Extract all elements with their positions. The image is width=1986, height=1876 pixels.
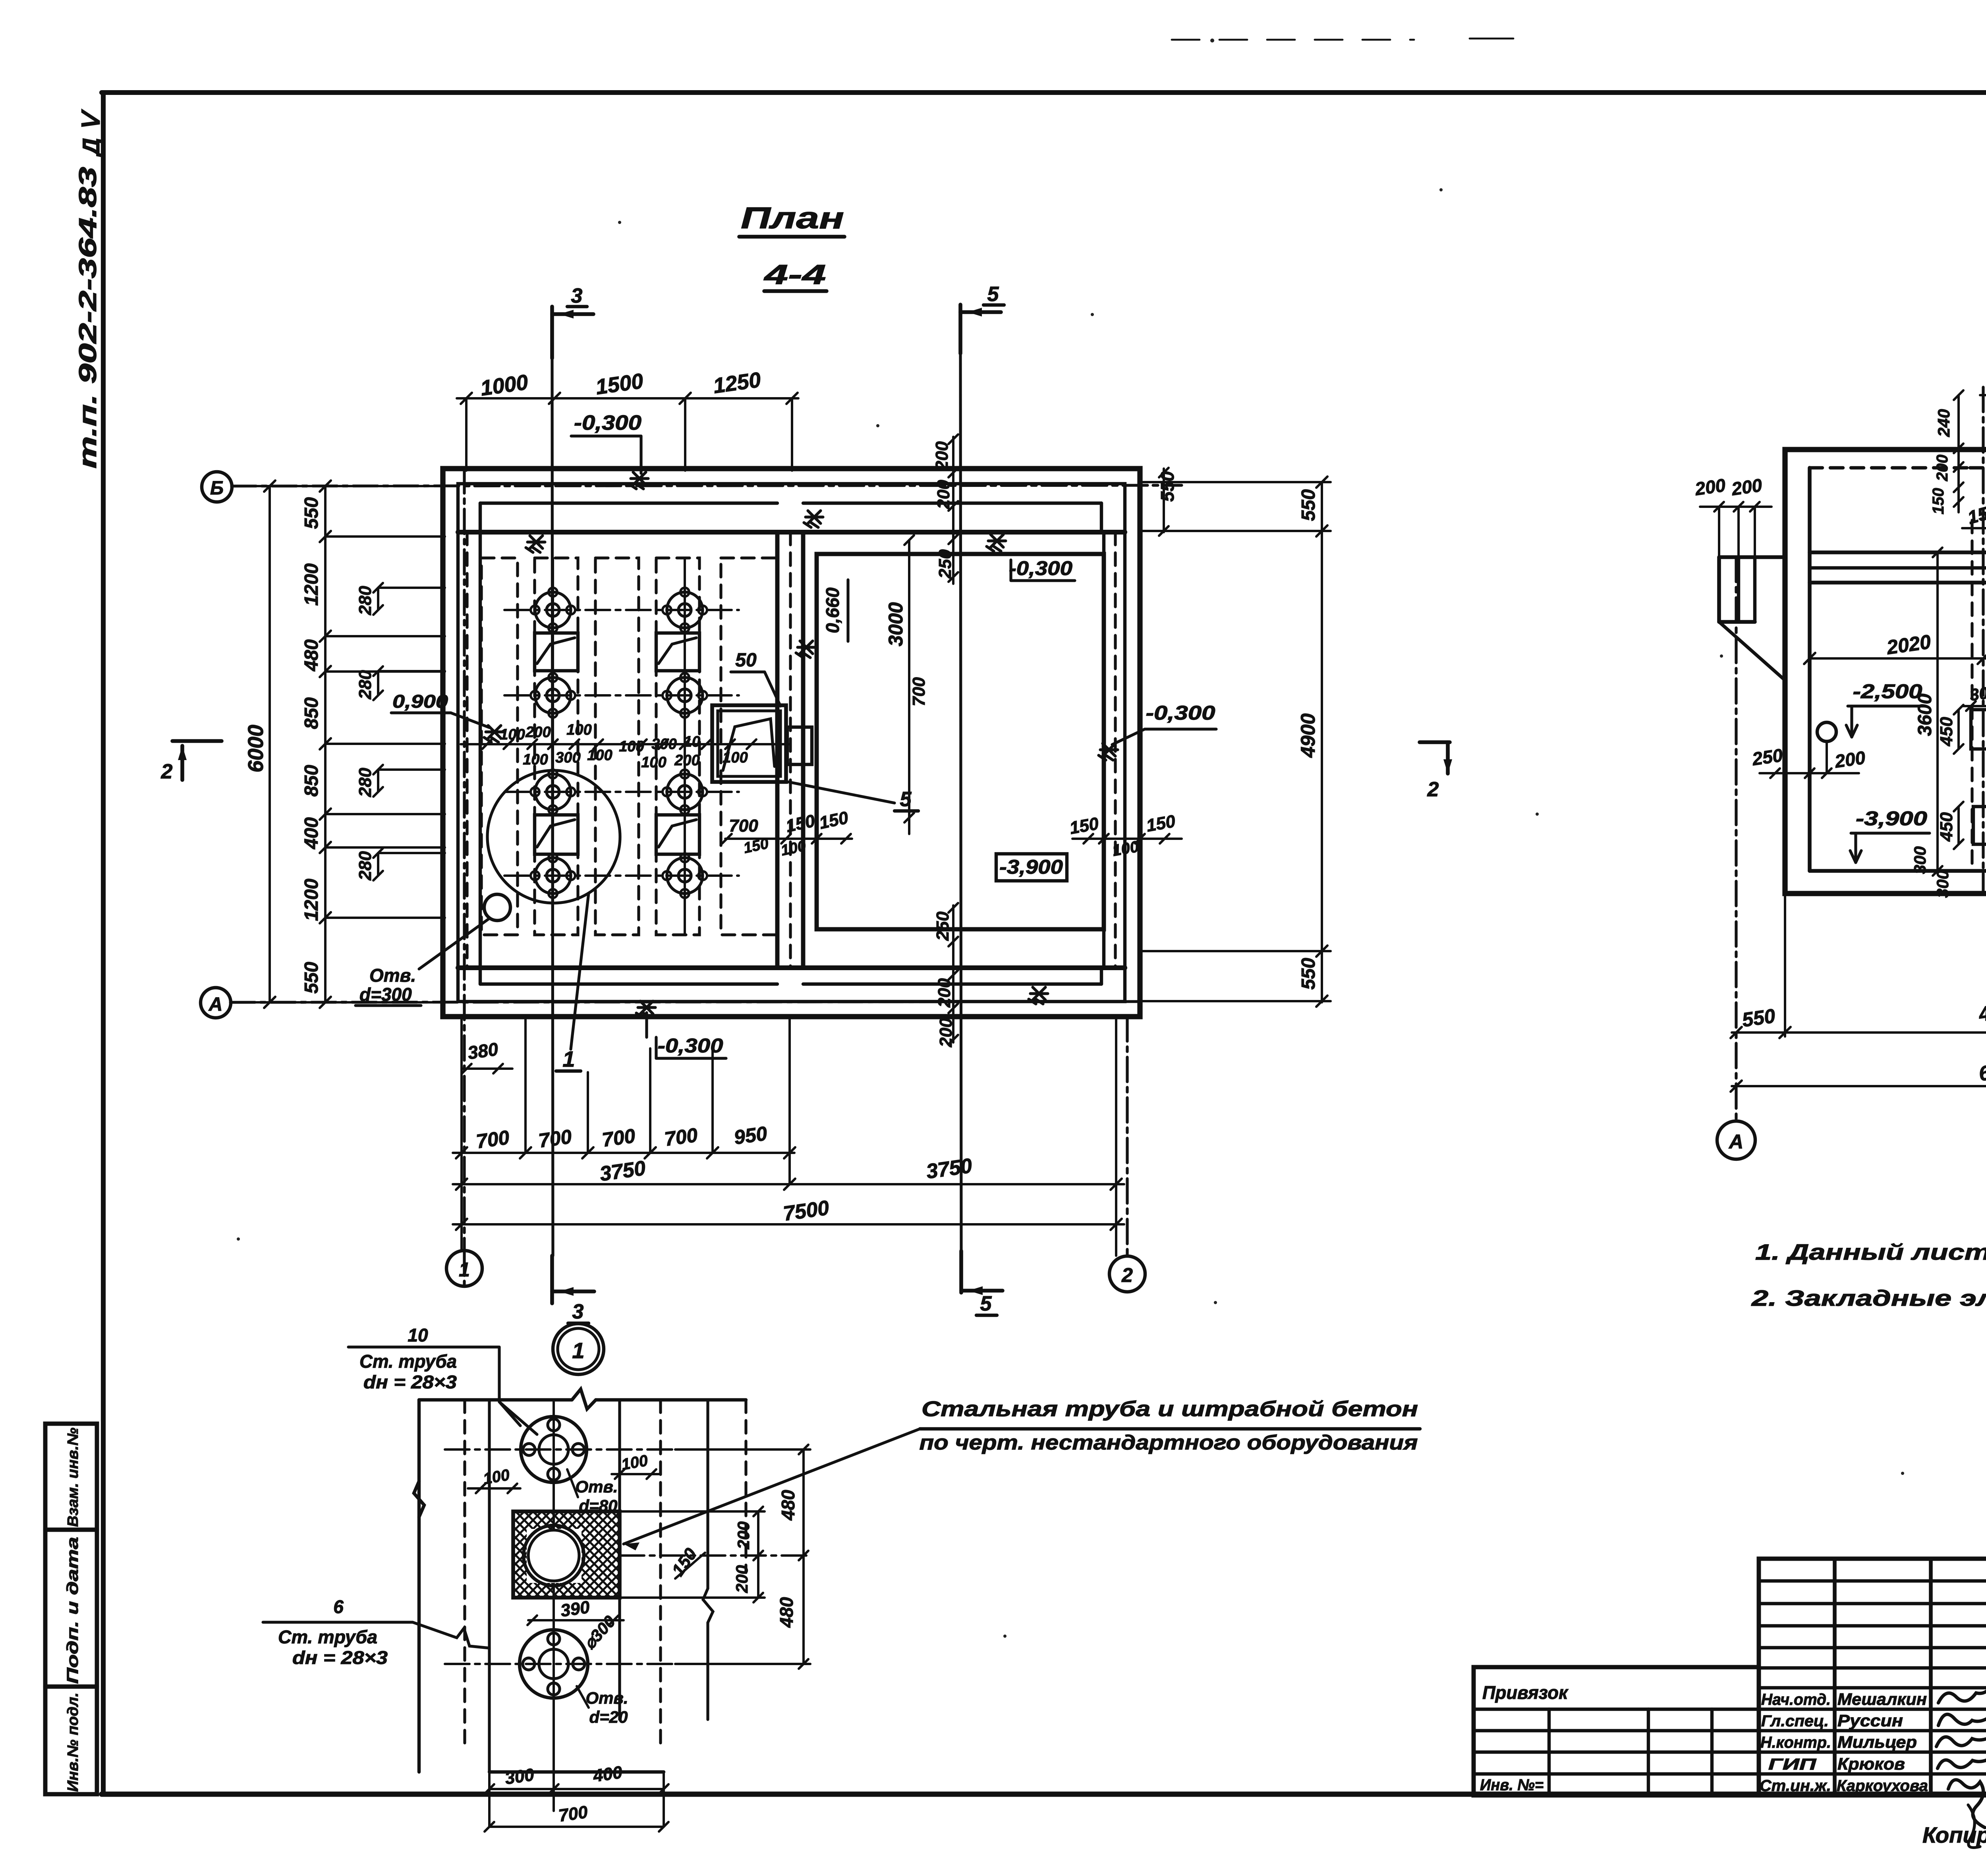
- svg-text:200: 200: [734, 1521, 753, 1550]
- plan embedded plate 2: [656, 633, 699, 671]
- svg-text:Ст. труба: Ст. труба: [359, 1351, 457, 1372]
- svg-text:550: 550: [301, 497, 322, 529]
- plan bottom beam: [480, 982, 777, 986]
- section pipe hole left: [1817, 722, 1836, 741]
- svg-text:390: 390: [559, 1597, 591, 1621]
- svg-text:550: 550: [1741, 1005, 1777, 1031]
- section socket 3: [1973, 807, 1986, 844]
- plan dims 700 150 150: [725, 838, 852, 840]
- svg-text:0,900: 0,900: [392, 691, 448, 712]
- svg-text:200: 200: [674, 752, 699, 769]
- svg-text:700: 700: [729, 816, 758, 836]
- svg-text:d=20: d=20: [589, 1708, 628, 1726]
- svg-text:Ст.ин.ж.: Ст.ин.ж.: [1760, 1777, 1831, 1795]
- detail bottom dims 300 400: [489, 1788, 664, 1790]
- svg-text:3600: 3600: [1915, 693, 1936, 736]
- svg-text:6000: 6000: [244, 725, 268, 772]
- svg-text:1. Данный лист читать совместн: 1. Данный лист читать совместно с листом…: [1755, 1239, 1986, 1264]
- svg-text:-2,500: -2,500: [1853, 680, 1922, 703]
- svg-text:-3,900: -3,900: [1856, 807, 1927, 830]
- plan anchor bolt cluster 2: [667, 592, 703, 628]
- plan embedded plate 1: [535, 633, 578, 671]
- plan axis circle 2: [1109, 1256, 1145, 1292]
- plan right bottom dims 250 200 200: [952, 905, 954, 1042]
- plan detail leader 1: [571, 893, 589, 1049]
- detail right chain 480 480: [802, 1449, 805, 1664]
- svg-text:700: 700: [537, 1125, 573, 1152]
- plan axis 1 line: [463, 469, 466, 1251]
- svg-text:т.п. 902-2-364.83: т.п. 902-2-364.83: [74, 167, 102, 469]
- svg-text:480: 480: [301, 639, 322, 672]
- svg-text:280: 280: [355, 768, 375, 797]
- svg-text:100: 100: [587, 747, 612, 764]
- section dim 250: [1760, 772, 1815, 774]
- plan central opening: [712, 705, 786, 782]
- svg-text:3: 3: [572, 1300, 584, 1323]
- svg-text:100: 100: [523, 751, 548, 768]
- svg-text:700: 700: [557, 1802, 589, 1826]
- svg-text:Копировал: ЛА: Копировал: ЛА: [1922, 1822, 1986, 1847]
- svg-text:2: 2: [1121, 1264, 1133, 1286]
- svg-text:250: 250: [933, 911, 952, 941]
- plan embedded plate 3: [535, 815, 578, 854]
- section dim 450 lower: [1957, 807, 1960, 844]
- section dim 300 left: [1962, 705, 1986, 707]
- svg-text:100: 100: [500, 726, 525, 743]
- section bottom chain 6000: [1732, 1085, 1986, 1087]
- sheet frame bottom border: [102, 1791, 1986, 1797]
- section outer walls: [1785, 450, 1986, 894]
- detail bottom dim 700: [489, 1826, 664, 1828]
- svg-text:300: 300: [504, 1765, 535, 1788]
- svg-text:550: 550: [1298, 958, 1319, 990]
- svg-text:Б: Б: [210, 478, 224, 499]
- plan channel strips dashed: [481, 558, 518, 935]
- svg-text:480: 480: [778, 1490, 798, 1521]
- plan left dim 6000: [269, 486, 271, 1002]
- plan axis B line: [232, 485, 1182, 486]
- svg-text:700: 700: [909, 677, 929, 706]
- plan opening circle d300: [484, 894, 510, 921]
- plan leader 5: [788, 782, 894, 803]
- svg-text:50: 50: [735, 650, 757, 671]
- title block small grid: [1759, 1559, 1986, 1795]
- svg-text:А: А: [1728, 1131, 1743, 1153]
- plan left main chain: [324, 486, 326, 1002]
- svg-text:550: 550: [1298, 489, 1319, 521]
- plan bottom interior wall line: [458, 965, 1125, 970]
- svg-text:280: 280: [355, 670, 375, 700]
- svg-text:-0,300: -0,300: [1009, 557, 1072, 579]
- svg-text:280: 280: [355, 586, 375, 616]
- plan middle wall: [775, 532, 780, 968]
- plan bottom chain 3750: [453, 1183, 1124, 1185]
- plan left wall inner band: [479, 532, 482, 968]
- svg-text:-0,300: -0,300: [574, 411, 641, 434]
- plan level -0.300 bottom: [636, 1001, 655, 1018]
- plan right chain: [1321, 482, 1323, 1002]
- section rotated dims 240 200 150: [1957, 395, 1960, 512]
- plan axis circle A: [230, 1001, 443, 1004]
- plan bottom section flag 5: [959, 1251, 963, 1293]
- svg-text:200: 200: [1833, 747, 1867, 772]
- plan right wall dims 150 150 100: [1072, 838, 1182, 840]
- plan left 280 chain: [377, 588, 379, 610]
- svg-text:250: 250: [935, 549, 955, 579]
- svg-text:-0,300: -0,300: [1146, 702, 1215, 724]
- svg-text:850: 850: [301, 697, 322, 729]
- section inner top dashed: [1810, 466, 1970, 469]
- plan anchor bolt cluster 1: [535, 592, 571, 628]
- plan axis A line: [230, 1002, 1140, 1002]
- detail bottom boundary: [489, 1770, 664, 1774]
- svg-text:850: 850: [301, 765, 322, 797]
- detail dim 100 left: [468, 1487, 520, 1490]
- title block signatures: [1938, 1688, 1986, 1703]
- section axis circle A: [1735, 557, 1737, 1121]
- detail node circle 1: [553, 1324, 604, 1374]
- plan right corner dims 200 200 250: [952, 437, 954, 584]
- svg-text:Крюков: Крюков: [1837, 1754, 1905, 1773]
- svg-text:400: 400: [591, 1762, 624, 1786]
- svg-text:2. Закладные элементы см. лист: 2. Закладные элементы см. лист АС-31.: [1751, 1285, 1986, 1310]
- section inner bottom: [1810, 869, 1986, 873]
- svg-text:200: 200: [935, 978, 954, 1008]
- plan anchor bolt cluster 4: [667, 677, 703, 713]
- svg-text:Стальная труба и штрабной бето: Стальная труба и штрабной бетон: [922, 1397, 1418, 1421]
- plan top interior wall line: [458, 530, 1125, 535]
- section inner left wall: [1808, 468, 1812, 871]
- svg-text:0,660: 0,660: [822, 587, 843, 633]
- detail vertical boundaries: [417, 1400, 421, 1772]
- svg-text:550: 550: [301, 962, 322, 994]
- scan speckles: [1210, 39, 1214, 42]
- section dim 3600: [1936, 552, 1939, 871]
- section left dims 200 200: [1700, 506, 1772, 508]
- svg-text:100: 100: [641, 754, 666, 771]
- svg-text:300: 300: [555, 749, 580, 766]
- plan top beam: [480, 502, 777, 505]
- svg-text:dн = 28×3: dн = 28×3: [363, 1372, 457, 1392]
- detail steel pipe: [524, 1525, 584, 1586]
- svg-text:-3,900: -3,900: [999, 856, 1063, 878]
- svg-text:3000: 3000: [885, 602, 907, 646]
- sheet frame left border: [101, 93, 106, 1794]
- section top dim 290: [1980, 394, 1986, 396]
- plan left section flag 2: [172, 739, 222, 743]
- svg-text:10: 10: [408, 1325, 428, 1345]
- detail dim 100 right: [612, 1473, 659, 1475]
- detail axis circle 1: [463, 1251, 466, 1287]
- svg-text:5: 5: [987, 283, 999, 306]
- svg-text:4-4: 4-4: [763, 259, 826, 290]
- plan outer wall: [443, 469, 1140, 1017]
- plan middle dimension line: [461, 743, 790, 745]
- svg-text:1200: 1200: [301, 878, 322, 921]
- plan section line 3-3: [552, 358, 553, 1256]
- svg-text:ГИП: ГИП: [1768, 1756, 1817, 1773]
- svg-text:3: 3: [571, 284, 583, 307]
- svg-text:450: 450: [1937, 812, 1956, 842]
- plan dim 3000 vertical: [908, 540, 910, 834]
- svg-text:400: 400: [301, 817, 322, 849]
- plan top section flag 5: [958, 305, 962, 353]
- plan anchor bolt cluster 3: [535, 677, 571, 713]
- plan top dim chain: [457, 397, 798, 400]
- plan section line 5-5: [960, 353, 961, 1251]
- svg-text:300: 300: [1969, 682, 1986, 704]
- svg-text:200: 200: [936, 1018, 956, 1048]
- title block privyazok box: [1474, 1667, 1759, 1795]
- plan top section flag 3: [550, 307, 554, 358]
- svg-text:Мильцер: Мильцер: [1837, 1733, 1917, 1751]
- svg-text:1: 1: [572, 1338, 584, 1363]
- svg-text:6: 6: [333, 1596, 344, 1617]
- svg-text:2: 2: [1427, 778, 1439, 801]
- plan embedded plate 4: [656, 815, 699, 854]
- svg-text:План: План: [741, 201, 844, 235]
- svg-text:300: 300: [651, 736, 676, 753]
- detail flange upper: [521, 1417, 587, 1482]
- svg-text:2: 2: [161, 760, 173, 783]
- plan bottom chain 700s: [453, 1152, 794, 1154]
- svg-text:4900: 4900: [1297, 713, 1319, 758]
- svg-text:280: 280: [355, 851, 375, 881]
- plan ground mark left chamber: [526, 536, 545, 552]
- section dim 450 upper: [1957, 710, 1960, 749]
- plan detail callout circle: [487, 770, 620, 903]
- svg-text:950: 950: [732, 1122, 769, 1149]
- section bottom chain 550 4900 550: [1732, 1031, 1986, 1034]
- svg-text:1200: 1200: [301, 563, 322, 606]
- plan bottom chain 7500: [453, 1223, 1124, 1226]
- svg-text:200: 200: [932, 441, 952, 471]
- plan right section flag 2: [1420, 740, 1450, 744]
- svg-text:Привязок: Привязок: [1482, 1682, 1569, 1703]
- svg-text:700: 700: [663, 1124, 699, 1150]
- svg-text:Отв.: Отв.: [369, 965, 416, 986]
- svg-text:Д Ⅴ: Д Ⅴ: [78, 109, 104, 158]
- plan ground mark top: [804, 511, 823, 527]
- svg-text:Отв.: Отв.: [575, 1477, 618, 1496]
- svg-text:300: 300: [1933, 870, 1952, 898]
- svg-text:1: 1: [562, 1046, 575, 1071]
- svg-text:Инв.№ подл.: Инв.№ подл.: [65, 1693, 81, 1792]
- svg-text:Мешалкин: Мешалкин: [1837, 1690, 1927, 1708]
- svg-text:dн = 28×3: dн = 28×3: [292, 1647, 388, 1668]
- plan right wall inner band: [1102, 532, 1105, 968]
- plan flange row axes: [504, 609, 739, 611]
- svg-text:200: 200: [525, 724, 551, 741]
- svg-text:d=80: d=80: [579, 1496, 618, 1515]
- svg-text:200: 200: [1730, 475, 1764, 499]
- svg-text:700: 700: [601, 1125, 637, 1151]
- torn page edge dashes top: [1172, 39, 1414, 41]
- plan anchor bolt cluster 8: [667, 858, 703, 894]
- section center axis lines: [1982, 387, 1984, 894]
- detail chain 200 200: [757, 1511, 759, 1598]
- plan axis circle 1: [446, 1251, 482, 1286]
- svg-text:300: 300: [1911, 846, 1929, 874]
- svg-text:Инв. №=: Инв. №=: [1480, 1776, 1544, 1794]
- detail pipe leader: [624, 1429, 920, 1544]
- plan anchor bolt cluster 6: [667, 774, 703, 810]
- svg-text:100: 100: [566, 722, 591, 738]
- svg-text:250: 250: [1750, 745, 1784, 769]
- plan ground mark bottom middle: [1029, 987, 1048, 1004]
- margin stamp box: [45, 1424, 97, 1794]
- section dim 2020: [1810, 657, 1986, 660]
- plan axis 2 line: [1126, 1017, 1128, 1256]
- svg-text:5: 5: [980, 1292, 992, 1315]
- svg-text:Ст. труба: Ст. труба: [278, 1627, 377, 1647]
- svg-text:450: 450: [1937, 717, 1956, 747]
- svg-text:Руссин: Руссин: [1837, 1711, 1903, 1730]
- svg-text:Отв.: Отв.: [585, 1689, 628, 1707]
- svg-text:150: 150: [1930, 488, 1947, 515]
- svg-text:200: 200: [1934, 455, 1951, 482]
- section dim 200 circle: [1810, 772, 1859, 774]
- svg-text:А: А: [209, 994, 223, 1015]
- svg-text:200: 200: [1693, 475, 1727, 499]
- plan pipe axis verticals: [552, 558, 554, 935]
- svg-text:700: 700: [475, 1126, 511, 1153]
- svg-text:10: 10: [684, 733, 700, 750]
- detail flange lower: [445, 1663, 675, 1665]
- detail pipe axis upper: [445, 1448, 675, 1451]
- plan axis circle B: [232, 485, 443, 487]
- svg-text:480: 480: [776, 1597, 797, 1628]
- svg-text:Взам. инв.№: Взам. инв.№: [65, 1428, 81, 1527]
- svg-text:Каркоухова: Каркоухова: [1837, 1777, 1928, 1795]
- svg-text:380: 380: [466, 1038, 500, 1063]
- section left console: [1719, 555, 1785, 559]
- plan right chamber interior: [817, 554, 1104, 929]
- svg-text:Нач.отд.: Нач.отд.: [1761, 1691, 1831, 1708]
- plan level -0.300 top right: [987, 535, 1006, 551]
- detail top boundary: [419, 1398, 572, 1401]
- svg-text:100: 100: [619, 738, 644, 755]
- svg-text:Н.контр.: Н.контр.: [1760, 1734, 1831, 1751]
- plan bottom section flag 3: [550, 1256, 554, 1303]
- plan anchor bolt cluster 7: [535, 858, 571, 894]
- plan inner wall face: [458, 484, 1125, 1002]
- svg-text:Гл.спец.: Гл.спец.: [1761, 1712, 1829, 1730]
- svg-text:200: 200: [732, 1565, 751, 1593]
- svg-text:по черт. нестандартного обору: по черт. нестандартного оборудования: [920, 1431, 1418, 1454]
- section left shelf: [1810, 550, 1986, 554]
- section socket 1: [1971, 710, 1986, 749]
- sheet frame top border: [102, 90, 1986, 95]
- detail dim 390: [528, 1619, 624, 1621]
- svg-text:240: 240: [1934, 409, 1953, 437]
- plan anchor bolt cluster 5: [535, 774, 571, 810]
- svg-text:Подп. и дата: Подп. и дата: [64, 1537, 81, 1684]
- svg-text:200: 200: [934, 480, 953, 510]
